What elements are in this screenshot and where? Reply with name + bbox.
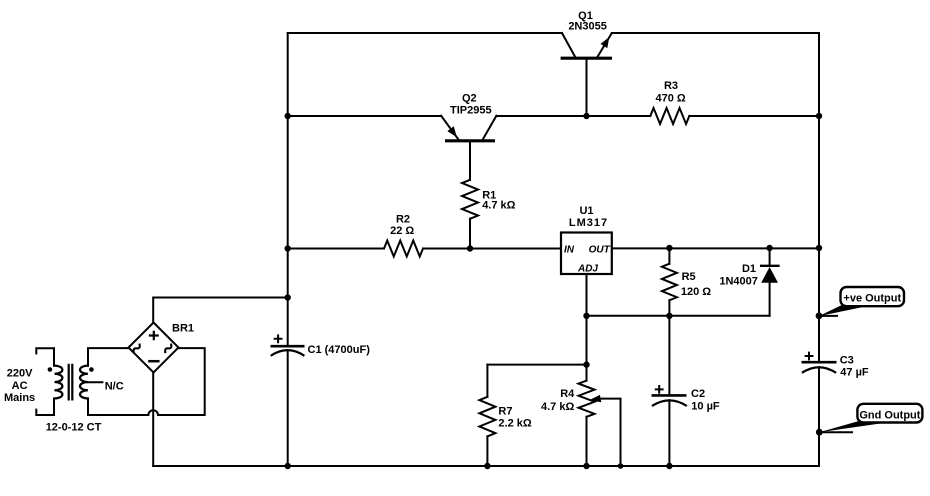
svg-text:LM317: LM317 [569, 217, 608, 229]
svg-text:470 Ω: 470 Ω [655, 93, 685, 105]
svg-text:N/C: N/C [105, 380, 124, 392]
svg-text:Mains: Mains [4, 392, 35, 404]
svg-text:D1: D1 [742, 263, 756, 275]
svg-text:R7: R7 [498, 406, 512, 418]
svg-text:TIP2955: TIP2955 [450, 105, 492, 117]
svg-text:120 Ω: 120 Ω [681, 286, 711, 298]
svg-text:4.7 kΩ: 4.7 kΩ [541, 401, 574, 413]
svg-text:IN: IN [564, 245, 575, 256]
svg-text:OUT: OUT [589, 245, 611, 256]
svg-text:C1 (4700uF): C1 (4700uF) [308, 344, 371, 356]
svg-text:12-0-12 CT: 12-0-12 CT [46, 422, 102, 434]
svg-text:R2: R2 [396, 213, 410, 225]
svg-text:C3: C3 [840, 355, 854, 367]
svg-text:2.2 kΩ: 2.2 kΩ [498, 418, 531, 430]
svg-text:+ve Output: +ve Output [843, 292, 901, 304]
svg-text:10 µF: 10 µF [691, 400, 720, 412]
svg-text:22 Ω: 22 Ω [390, 225, 414, 237]
svg-text:R4: R4 [560, 388, 575, 400]
svg-text:4.7 kΩ: 4.7 kΩ [482, 200, 515, 212]
svg-text:220V: 220V [7, 368, 33, 380]
svg-text:R3: R3 [664, 80, 678, 92]
svg-text:BR1: BR1 [172, 323, 194, 335]
svg-text:2N3055: 2N3055 [568, 20, 607, 32]
svg-text:C2: C2 [691, 388, 705, 400]
svg-text:47 µF: 47 µF [840, 366, 869, 378]
svg-text:Q2: Q2 [462, 93, 477, 105]
svg-text:ADJ: ADJ [577, 263, 598, 274]
svg-text:U1: U1 [579, 205, 593, 217]
svg-text:AC: AC [12, 380, 28, 392]
svg-text:Gnd Output: Gnd Output [859, 409, 920, 421]
svg-text:R5: R5 [682, 271, 696, 283]
svg-text:1N4007: 1N4007 [719, 276, 758, 288]
